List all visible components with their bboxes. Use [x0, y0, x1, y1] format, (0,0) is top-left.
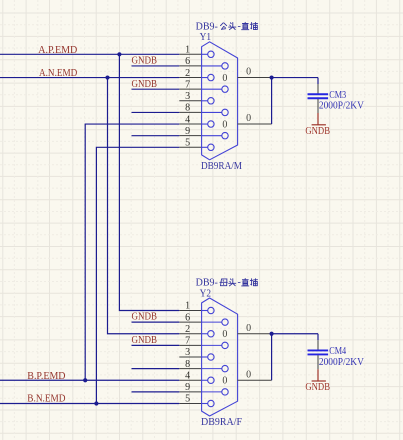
svg-text:Y1: Y1 — [200, 31, 211, 43]
svg-text:2000P/2KV: 2000P/2KV — [319, 357, 364, 368]
svg-text:2000P/2KV: 2000P/2KV — [319, 101, 364, 112]
svg-text:B.N.EMD: B.N.EMD — [27, 392, 65, 404]
svg-text:GNDB: GNDB — [305, 381, 330, 393]
svg-text:GNDB: GNDB — [132, 78, 158, 90]
svg-text:B.P.EMD: B.P.EMD — [27, 370, 65, 382]
svg-text:DB9RA/F: DB9RA/F — [201, 416, 242, 428]
svg-text:Y2: Y2 — [200, 287, 211, 299]
svg-text:GNDB: GNDB — [132, 334, 158, 346]
svg-text:A.N.EMD: A.N.EMD — [39, 67, 77, 79]
svg-text:GNDB: GNDB — [305, 125, 330, 137]
svg-text:GNDB: GNDB — [132, 311, 158, 323]
svg-text:CM3: CM3 — [329, 90, 346, 101]
svg-text:-: - — [238, 21, 241, 32]
svg-text:DB9RA/M: DB9RA/M — [201, 160, 242, 172]
svg-text:CM4: CM4 — [329, 346, 347, 357]
svg-text:-: - — [238, 277, 241, 288]
svg-text:GNDB: GNDB — [132, 55, 158, 67]
svg-text:A.P.EMD: A.P.EMD — [38, 44, 77, 56]
